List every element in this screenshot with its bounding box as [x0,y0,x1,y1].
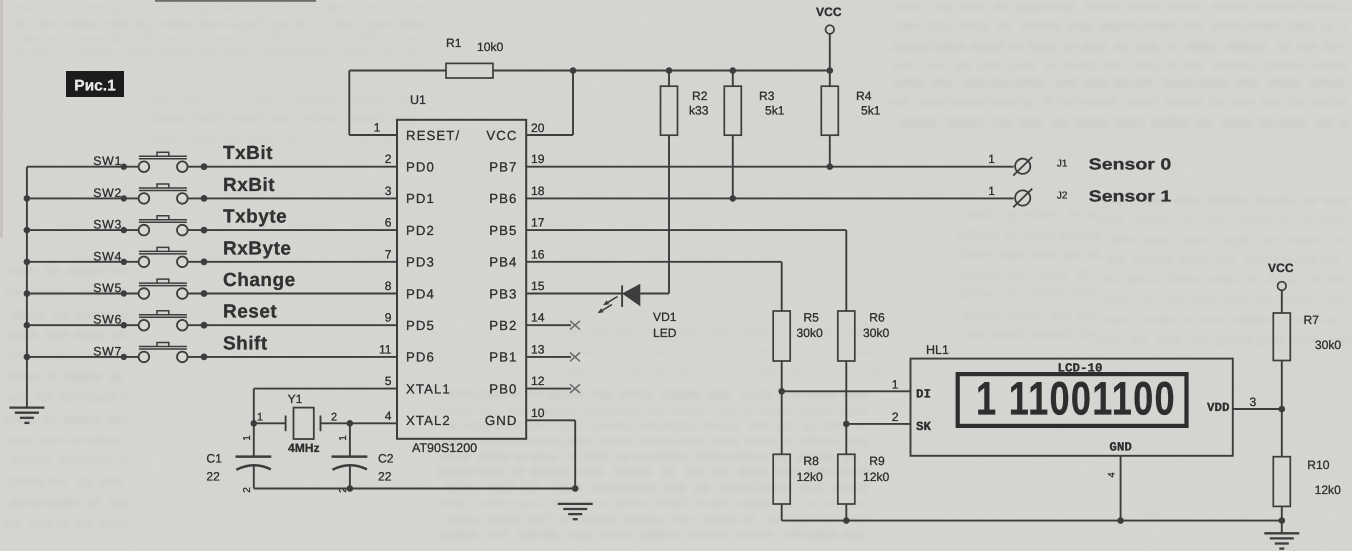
IC U1 AT90S1200 body [397,120,526,439]
svg-text:5k1: 5k1 [861,104,881,118]
junction crystal right [347,420,354,427]
wire DI net (node 1) [782,378,911,392]
push-button switch SW5 (Change) [27,279,397,299]
svg-text:2: 2 [892,410,899,424]
junction bus row SW3 [24,227,31,234]
svg-text:R10: R10 [1307,458,1329,472]
svg-text:Y1: Y1 [288,392,303,406]
junction R10 bottom [1279,517,1286,524]
svg-text:SW3: SW3 [93,218,122,232]
svg-text:GND: GND [485,413,518,428]
svg-text:Sensor 0: Sensor 0 [1089,157,1172,174]
svg-text:4: 4 [385,409,392,423]
svg-text:11: 11 [379,342,392,356]
svg-text:2: 2 [331,412,337,424]
resistor R1 [446,36,503,78]
svg-text:10k0: 10k0 [477,40,503,54]
wire HL1 pin 3 VDD [1233,395,1282,409]
svg-text:PD2: PD2 [406,223,435,238]
svg-text:U1: U1 [410,93,426,107]
svg-text:4MHz: 4MHz [288,441,320,455]
svg-text:SW1: SW1 [93,154,122,168]
capacitor C2 22 [332,423,394,492]
junction VDD node [1279,406,1286,413]
wire R1 to VCC rail [493,70,830,72]
resistor R8 12k0 [773,391,823,520]
junction bus row SW2 [24,195,31,202]
svg-text:Shift: Shift [223,333,268,354]
svg-text:PD0: PD0 [406,160,435,175]
svg-text:R5: R5 [803,311,819,325]
wire SK net (node 2) [846,410,910,424]
svg-text:J2: J2 [1057,190,1068,201]
svg-text:SK: SK [916,420,932,434]
svg-text:AT90S1200: AT90S1200 [412,441,477,455]
power VCC (right) [1268,261,1294,313]
svg-text:30k0: 30k0 [1315,338,1341,352]
signal label RxByte [223,238,291,259]
svg-text:R2: R2 [692,89,708,103]
svg-text:PB4: PB4 [489,255,517,270]
crystal Y1 [254,392,350,455]
svg-text:15: 15 [531,279,545,293]
junction bus row SW6 [24,322,31,329]
svg-text:J1: J1 [1057,159,1068,170]
svg-text:PB1: PB1 [489,350,517,365]
U1 pin 6 number [385,216,392,230]
svg-text:PB5: PB5 [489,223,517,238]
svg-text:TxBit: TxBit [223,143,273,164]
svg-text:7: 7 [385,247,392,261]
wire pin1 riser / top rail to R1 [349,71,446,136]
svg-text:22: 22 [378,470,392,484]
svg-text:14: 14 [531,311,545,325]
svg-text:VD1: VD1 [653,310,677,324]
U1 part number label [412,441,477,455]
svg-text:PB7: PB7 [489,160,517,175]
wire R5 to DI node [781,361,783,391]
svg-text:1: 1 [338,435,349,441]
wire cap ground bus [254,488,575,490]
signal label Change [223,270,296,291]
svg-text:PB2: PB2 [489,318,517,333]
wire U1 pin 16 PB4 to R5 [526,247,782,311]
svg-text:2: 2 [385,152,392,166]
svg-text:SW7: SW7 [93,344,122,358]
wire LED to R2 bottom [668,135,670,293]
LED VD1 [598,284,670,314]
svg-text:5k1: 5k1 [765,104,785,118]
junction R4 bottom / PB7 [827,163,834,170]
svg-text:LED: LED [653,326,677,340]
push-button switch SW4 (RxByte) [27,247,397,267]
svg-text:6: 6 [385,216,392,230]
resistor R9 12k0 [838,424,890,521]
svg-text:12: 12 [531,374,545,388]
junction R6/R9/SK [843,421,850,428]
svg-text:XTAL1: XTAL1 [406,381,451,396]
junction R5/R8/DI [778,388,785,395]
junction bus row SW4 [24,259,31,266]
resistor R5 30k0 [773,311,823,362]
U1 pin 12 (unconnected PB0) [526,374,580,393]
svg-text:R1: R1 [446,36,462,50]
svg-text:PB3: PB3 [489,286,517,301]
U1 pin 9 number [385,311,392,325]
resistor R6 30k0 [838,311,890,362]
junction R2 top [666,67,673,74]
svg-text:1: 1 [374,121,381,135]
svg-text:1: 1 [892,378,899,392]
svg-text:PB0: PB0 [489,381,517,396]
svg-text:PD3: PD3 [406,255,435,270]
svg-text:12k0: 12k0 [863,470,889,484]
junction R9 bottom [843,517,850,524]
svg-text:k33: k33 [689,104,709,118]
wire U1 pin 15 PB3 to LED [526,279,622,294]
U1 pin 8 number [385,279,392,293]
U1 pin 3 number [385,184,392,198]
svg-text:SW4: SW4 [93,249,122,263]
junction bus row SW5 [24,290,31,297]
wire U1 pin 18 PB6 to J2 [526,184,1014,199]
ground symbol (right) [1264,521,1299,549]
push-button switch SW1 (TxBit) [27,152,397,172]
bottom ground bus [782,520,1282,522]
wire U1 pin 5 XTAL1 [254,374,397,423]
ground symbol (under U1) [558,504,593,519]
resistor R7 30k0 [1273,313,1341,409]
svg-text:C2: C2 [378,452,394,466]
svg-text:1: 1 [988,152,995,166]
svg-text:VCC: VCC [816,5,842,19]
LCD module HL1 body [911,343,1233,456]
push-button switch SW7 (Shift) [27,343,397,363]
wire U1 pin 4 XTAL2 [350,409,397,424]
svg-text:PD1: PD1 [406,191,435,206]
wire U1 pin 17 PB5 to R6 [526,216,846,311]
U1 pin 2 number [385,152,392,166]
svg-text:Sensor 1: Sensor 1 [1089,188,1172,205]
resistor R3 5k1 [724,71,784,199]
ground symbol (left) [9,408,44,423]
svg-text:16: 16 [531,247,545,261]
svg-text:18: 18 [531,184,545,198]
svg-text:R6: R6 [869,311,885,325]
decorative scan bleed-through (not labelled) [9,9,430,53]
resistor R10 12k0 [1273,409,1341,521]
svg-text:22: 22 [206,470,220,484]
wire R6 to SK node [845,361,847,424]
svg-text:Reset: Reset [223,302,277,323]
svg-text:VCC: VCC [1268,261,1294,275]
svg-text:VCC: VCC [486,128,517,143]
wire U1 pin 20 (VCC) [526,71,573,136]
svg-text:RxByte: RxByte [223,238,291,259]
U1 pin 13 (unconnected PB1) [526,342,580,361]
connector J2 Sensor 1 [988,184,1171,207]
svg-text:1: 1 [988,184,995,198]
junction pin20 top [570,67,577,74]
svg-text:Change: Change [223,270,296,291]
svg-text:R7: R7 [1304,313,1320,327]
svg-text:3: 3 [1250,395,1257,409]
svg-text:30k0: 30k0 [863,326,889,340]
signal label Txbyte [223,207,287,228]
junction HL1 GND bottom [1117,517,1124,524]
svg-text:4: 4 [1107,472,1118,477]
signal label RxBit [223,175,275,196]
figure label "Рис.1" [66,71,124,97]
svg-text:12k0: 12k0 [797,470,823,484]
svg-text:R3: R3 [759,89,775,103]
svg-text:SW6: SW6 [93,313,122,327]
svg-text:SW2: SW2 [93,186,122,200]
signal label Shift [223,333,268,354]
svg-text:30k0: 30k0 [797,326,823,340]
signal label Reset [223,302,277,323]
push-button switch SW2 (RxBit) [27,184,397,204]
svg-text:XTAL2: XTAL2 [406,413,451,428]
svg-text:19: 19 [531,152,545,166]
svg-text:20: 20 [531,121,545,135]
svg-text:PD4: PD4 [406,286,435,301]
U1 pin 1 number [374,121,381,135]
svg-text:VDD: VDD [1207,401,1230,415]
resistor R4 5k1 [821,71,880,167]
svg-text:PB6: PB6 [489,191,517,206]
svg-text:5: 5 [385,374,392,388]
svg-text:R4: R4 [856,89,872,103]
svg-text:GND: GND [1109,441,1132,455]
U1 pin 14 (unconnected PB2) [526,311,580,330]
junction R4/VCC top [827,67,834,74]
wire U1 pin 10 GND [526,406,575,489]
svg-text:R8: R8 [803,454,819,468]
svg-text:12k0: 12k0 [1315,483,1341,497]
resistor R2 k33 [661,71,709,136]
junction R3 bottom / PB6 [730,195,737,202]
capacitor C1 22 [206,423,271,492]
svg-text:PD5: PD5 [406,318,435,333]
signal label TxBit [223,143,273,164]
svg-text:Рис.1: Рис.1 [74,78,116,95]
wire HL1 pin 4 GND [1107,456,1121,521]
svg-text:1: 1 [257,412,263,424]
svg-text:R9: R9 [869,454,885,468]
ground bus (left) [26,167,28,407]
U1 reference label [410,93,426,107]
svg-text:10: 10 [531,406,545,420]
svg-text:Txbyte: Txbyte [223,207,287,228]
junction R3 top [730,67,737,74]
push-button switch SW6 (Reset) [27,311,397,331]
svg-text:17: 17 [531,216,545,230]
svg-text:RxBit: RxBit [223,175,275,196]
svg-text:C1: C1 [206,452,222,466]
U1 pin 7 number [385,247,392,261]
junction bus row SW7 [24,354,31,361]
U1 pin 11 number [379,342,392,356]
LCD digits "1 11001100" [976,372,1175,425]
svg-text:8: 8 [385,279,392,293]
svg-text:PD6: PD6 [406,350,435,365]
push-button switch SW3 (Txbyte) [27,216,397,236]
power VCC (top) [816,5,842,71]
svg-text:1 11001100: 1 11001100 [976,372,1175,425]
LCD display window [958,374,1187,426]
svg-text:1: 1 [242,435,253,441]
svg-text:RESET/: RESET/ [406,128,460,143]
VD1 labels [653,310,677,340]
svg-text:3: 3 [385,184,392,198]
svg-text:DI: DI [916,388,931,402]
svg-text:9: 9 [385,311,392,325]
junction GND node [572,485,579,492]
svg-text:13: 13 [531,342,545,356]
svg-text:SW5: SW5 [93,281,122,295]
connector J1 Sensor 0 [988,152,1171,175]
junction crystal left [251,420,258,427]
wire U1 pin 19 PB7 to J1 [526,152,1014,167]
junction C2 bottom [347,485,354,492]
svg-text:HL1: HL1 [926,343,949,357]
svg-text:2: 2 [242,487,253,493]
